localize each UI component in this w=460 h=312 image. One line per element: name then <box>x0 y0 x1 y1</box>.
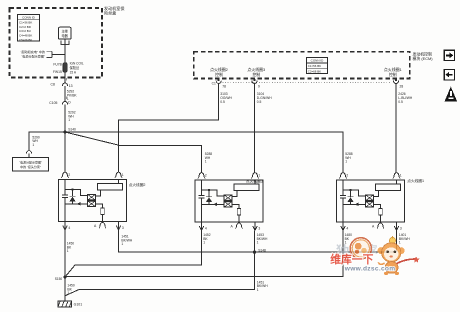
ignition coil module 点火线圈1 <box>337 180 405 222</box>
label 5292 PK/BK <box>67 90 78 102</box>
dzsc watermark group <box>330 236 419 275</box>
svg-text:C2=68 BK: C2=68 BK <box>308 69 321 73</box>
点火线圈1 diode <box>348 189 354 204</box>
点火线圈3 driver stage (crossed boxes) <box>224 195 232 207</box>
svg-text:0.5: 0.5 <box>257 100 262 104</box>
点火线圈3 wire resistor to pin A <box>238 215 240 222</box>
点火线圈2 low reference wire label ('1451', 'BK/WH') <box>121 235 132 247</box>
svg-text:78: 78 <box>222 85 226 89</box>
点火线圈2 pin A connector <box>94 222 106 228</box>
ground bus - S150 to coil1 pin 4 <box>65 230 343 276</box>
点火线圈2 pin 1 connector <box>115 172 124 178</box>
label 3104 D-GN/WH <box>257 92 272 104</box>
svg-text:模块 (ECM): 模块 (ECM) <box>413 56 434 61</box>
fuse rating label <box>70 62 84 75</box>
svg-text:C1=56 BK: C1=56 BK <box>308 64 321 68</box>
svg-text:C1: C1 <box>212 81 216 85</box>
点火线圈3 ground wire label ('1452', 'BK') <box>203 233 211 245</box>
wire - relay to fuse <box>64 39 66 63</box>
warning triangle symbol <box>445 87 458 102</box>
点火线圈1 driver stage (crossed boxes) <box>366 195 374 207</box>
svg-text:1: 1 <box>258 174 260 178</box>
点火线圈2 pin 4 connector <box>63 222 71 230</box>
点火线圈1 capacitor <box>340 195 346 197</box>
svg-text:G101: G101 <box>74 303 83 307</box>
点火线圈1 control wire into coil <box>396 180 398 184</box>
label 5292 WH <box>68 111 76 123</box>
点火线圈1 pin 3 connector <box>394 222 402 230</box>
ECM internal label - ignition coil 3 control <box>247 67 265 77</box>
svg-text:FW15: FW15 <box>53 70 62 74</box>
点火线圈3 pin 1 connector <box>251 173 260 179</box>
点火线圈3 wire driver to resistor <box>232 204 239 208</box>
svg-text:1: 1 <box>203 241 205 245</box>
svg-text:4: 4 <box>205 226 207 230</box>
点火线圈1 pin A connector <box>372 223 384 229</box>
connector at splice pack <box>26 151 31 154</box>
svg-text:1: 1 <box>67 249 69 253</box>
fuse block label <box>104 5 124 16</box>
svg-text:S140: S140 <box>68 128 76 132</box>
点火线圈2 diode <box>70 188 76 203</box>
wire 3104 D-GN/WH - ECM pin 9 to coil 3 pin 1 <box>254 84 256 173</box>
svg-text:CONN ID: CONN ID <box>311 59 325 63</box>
svg-text:FU7B: FU7B <box>53 63 62 67</box>
fuse element <box>63 63 67 73</box>
ground G101 <box>58 301 82 307</box>
svg-text:2: 2 <box>68 173 70 177</box>
点火线圈1 internal supply wire <box>342 180 344 195</box>
点火线圈3 pin 4 connector <box>199 222 207 230</box>
svg-text:0.5: 0.5 <box>220 100 225 104</box>
low reference bus to splice S148 <box>119 230 397 252</box>
wire - coil3 pin 3 down to bus <box>254 230 256 252</box>
svg-text:点火线圈1: 点火线圈1 <box>407 178 424 183</box>
label 3103 OG/WH <box>220 92 232 104</box>
ECM box (dashed outline) <box>194 52 410 79</box>
label 5290 WH <box>32 135 40 147</box>
splice S140 <box>63 128 76 134</box>
svg-text:9: 9 <box>258 85 260 89</box>
wire 1451 BK/WH - S148 to ground splice <box>65 252 254 295</box>
page nav - back arrow box <box>444 70 454 80</box>
splice pack reference box <box>13 158 49 172</box>
点火线圈2 wire driver to resistor <box>96 204 103 208</box>
点火线圈3 diode <box>206 189 212 204</box>
点火线圈2 capacitor <box>62 195 68 197</box>
点火线圈1 lower rail with polarity arrow <box>343 203 366 207</box>
CONN ID table of fuse block <box>18 14 40 42</box>
点火线圈2 coil primary winding box <box>98 184 123 191</box>
点火线圈2 control wire into coil <box>118 180 120 184</box>
wire - feed to coil 3 pin 2 <box>65 132 202 173</box>
label 5288 WH right branch <box>345 152 353 164</box>
ECM internal label - ignition coil 2 control <box>210 67 228 77</box>
ECM pin 28 <box>393 79 403 89</box>
svg-text:点火线圈3: 点火线圈3 <box>246 178 263 183</box>
点火线圈3 low reference wire label ('1453', 'BK/WH') <box>257 233 268 245</box>
wire - feed bus to coil 1 pin 2 <box>65 132 343 173</box>
label 1450 BK at ground wire <box>67 284 75 296</box>
点火线圈2 wire resistor to pin A <box>102 214 104 221</box>
svg-text:IGN COIL: IGN COIL <box>70 62 84 66</box>
relay box inside fuse block <box>58 27 71 39</box>
点火线圈1 wire resistor to pin A <box>380 215 382 222</box>
label 5288 WH middle branch <box>205 152 213 164</box>
点火线圈3 coil primary winding box <box>234 184 259 191</box>
点火线圈1 pin 4 connector <box>341 222 349 230</box>
点火线圈1 pin 2 connector <box>339 173 348 179</box>
relay socket bracket <box>61 41 69 45</box>
ECM connector C1 dotted gang line <box>223 81 392 83</box>
wire 5292 PK/BK <box>64 86 66 101</box>
svg-text:保险丝: 保险丝 <box>70 65 80 70</box>
wire - coil1 pin 3 down to bus <box>396 230 398 252</box>
ignition coil module 点火线圈2 <box>59 180 127 222</box>
svg-text:28: 28 <box>400 85 404 89</box>
label 1451 BK/WH at S148 drop <box>257 280 268 292</box>
点火线圈2 resistor <box>101 208 105 215</box>
label 2426 L-BU/WH <box>398 92 413 104</box>
svg-text:1: 1 <box>32 143 34 147</box>
点火线圈1 upper rail <box>343 190 366 196</box>
svg-text:www.dzsc.com: www.dzsc.com <box>344 266 396 273</box>
svg-text:2: 2 <box>205 174 207 178</box>
svg-text:13: 13 <box>69 84 73 88</box>
engine compartment fuse block (dashed outline) <box>10 8 102 78</box>
wire 5292 WH <box>64 104 66 132</box>
点火线圈3 lower rail with polarity arrow <box>202 203 225 207</box>
svg-text:控制: 控制 <box>252 72 260 77</box>
svg-text:1: 1 <box>68 118 70 122</box>
svg-text:控制: 控制 <box>215 72 223 77</box>
点火线圈3 wire driver to coil primary <box>232 191 237 197</box>
点火线圈2 internal supply wire <box>64 180 66 195</box>
svg-text:“电源分配示意图”: “电源分配示意图” <box>19 159 42 164</box>
点火线圈2 wire driver to coil primary <box>96 190 101 196</box>
点火线圈3 upper rail <box>202 190 225 196</box>
svg-text:C8: C8 <box>51 82 55 86</box>
wire - coil2 pin 4 to splice S150 and ground <box>64 230 66 301</box>
点火线圈2 driver stage (crossed boxes) <box>88 194 96 206</box>
wire - fuse to connector C8 <box>64 72 66 83</box>
CONN ID table of ECM <box>306 58 327 74</box>
svg-text:S148: S148 <box>258 248 266 252</box>
svg-text:主继: 主继 <box>62 28 69 33</box>
svg-text:3: 3 <box>258 226 260 230</box>
svg-text:C5=26 BK: C5=26 BK <box>19 38 32 42</box>
点火线圈2 ground wire label ('1450', 'BK') <box>67 242 75 254</box>
wire 2426 L-BU/WH - ECM pin 28 to coil 1 pin 1 <box>395 84 397 173</box>
点火线圈1 resistor <box>379 208 383 215</box>
ECM label <box>413 51 434 61</box>
svg-text:3: 3 <box>122 226 124 230</box>
ground bus - S150 to coil3 pin 4 <box>65 230 202 277</box>
ECM pin 9 <box>252 79 260 89</box>
点火线圈2 upper rail <box>65 190 88 196</box>
wire 3103 OG/WH - ECM pin 78 to coil 2 pin 1 <box>119 84 219 172</box>
splice S150 <box>55 275 67 281</box>
svg-text:1: 1 <box>122 173 124 177</box>
svg-text:1: 1 <box>257 288 259 292</box>
svg-text:电器: 电器 <box>62 33 69 38</box>
svg-text:2: 2 <box>346 174 348 178</box>
page nav - forward arrow box <box>444 50 454 60</box>
点火线圈3 pin A connector <box>231 223 243 229</box>
svg-text:3: 3 <box>400 226 402 230</box>
svg-text:0.5: 0.5 <box>398 100 403 104</box>
点火线圈3 capacitor <box>198 195 204 197</box>
svg-text:“电源分配示意图”: “电源分配示意图” <box>21 53 45 58</box>
wire - pointer stem <box>52 54 65 56</box>
svg-text:1: 1 <box>205 160 207 164</box>
svg-text:险丝盒: 险丝盒 <box>104 10 116 16</box>
ECM internal label - ignition coil 1 control <box>384 67 402 77</box>
点火线圈2 pin 3 connector <box>116 222 124 230</box>
svg-text:15 A: 15 A <box>70 71 77 75</box>
点火线圈3 resistor <box>237 208 241 215</box>
svg-text:1: 1 <box>399 241 401 245</box>
fuse FU7B labels <box>53 63 63 75</box>
connector C105 pin D <box>49 97 71 105</box>
svg-text:控制: 控制 <box>389 72 397 77</box>
svg-text:点火线圈2: 点火线圈2 <box>129 182 146 187</box>
点火线圈2 pin 2 connector <box>61 172 70 178</box>
svg-text:4: 4 <box>68 226 70 230</box>
wire - S140 down to coil 2 pin 2 <box>64 132 66 172</box>
svg-text:S150: S150 <box>55 277 63 281</box>
点火线圈3 control wire into coil <box>254 180 256 184</box>
svg-text:1: 1 <box>257 241 259 245</box>
svg-text:1: 1 <box>121 242 123 246</box>
点火线圈1 wire driver to resistor <box>374 204 381 208</box>
svg-text:C105: C105 <box>49 101 57 105</box>
svg-text:维库一下: 维库一下 <box>330 252 373 266</box>
splice S148 <box>253 248 266 253</box>
点火线圈1 ground wire label ('1480', 'BK') <box>345 233 353 245</box>
wire stub into splice pack box <box>28 154 30 158</box>
点火线圈3 pin 2 connector <box>198 173 207 179</box>
connector C8 pin 13 <box>51 78 73 88</box>
ECM pin 78 <box>216 79 226 89</box>
svg-text:中的 “接头分离”: 中的 “接头分离” <box>20 164 41 169</box>
svg-text:1: 1 <box>400 174 402 178</box>
wire 5290 WH - left branch to splice pack <box>29 132 65 150</box>
ignition coil module 点火线圈3 <box>195 180 263 222</box>
svg-text:CONN ID: CONN ID <box>22 15 36 19</box>
点火线圈3 internal supply wire <box>201 180 203 195</box>
svg-text:4: 4 <box>346 226 348 230</box>
点火线圈1 pin 1 connector <box>393 173 402 179</box>
reference pointer to charging schematic <box>20 49 52 58</box>
点火线圈1 wire driver to coil primary <box>374 191 379 197</box>
点火线圈1 low reference wire label ('1401', 'BK/WH') <box>399 233 410 245</box>
点火线圈3 pin 3 connector <box>253 222 261 230</box>
点火线圈2 lower rail with polarity arrow <box>65 202 88 206</box>
svg-text:1: 1 <box>67 291 69 295</box>
svg-text:1: 1 <box>345 160 347 164</box>
点火线圈1 coil primary winding box <box>376 184 401 191</box>
